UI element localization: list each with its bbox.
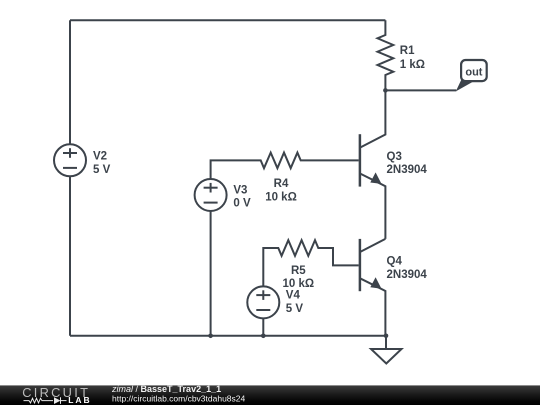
- node dot ground: [384, 334, 389, 339]
- wire V4 to bottom rail: [262, 318, 264, 335]
- svg-text:Q4: Q4: [387, 256, 403, 268]
- svg-text:2N3904: 2N3904: [387, 269, 428, 281]
- wire V3 to bottom rail: [210, 211, 212, 336]
- svg-text:Q3: Q3: [387, 151, 402, 163]
- svg-text:0 V: 0 V: [233, 197, 251, 209]
- resistor R1: [378, 20, 394, 90]
- svg-text:LAB: LAB: [68, 395, 91, 405]
- svg-text:1 kΩ: 1 kΩ: [400, 59, 425, 71]
- voltage source V2: [54, 144, 86, 176]
- svg-text:5 V: 5 V: [93, 164, 111, 176]
- ground: [385, 336, 387, 349]
- voltage source V3: [195, 179, 227, 211]
- Q4 emitter arrow: [370, 277, 381, 289]
- transistor Q3: [359, 134, 362, 186]
- svg-text:out: out: [465, 67, 482, 79]
- voltage source V4: [247, 286, 279, 318]
- svg-text:zimal / BasseT_Trav2_1_1: zimal / BasseT_Trav2_1_1: [111, 384, 221, 394]
- node dot V4 bottom: [261, 334, 266, 339]
- wire out net: [385, 89, 456, 91]
- node dot V3 bottom: [208, 334, 213, 339]
- wire left rail upper: [69, 20, 71, 144]
- Q3 emitter arrow: [370, 172, 381, 184]
- svg-text:5 V: 5 V: [286, 303, 304, 315]
- svg-text:10 kΩ: 10 kΩ: [265, 191, 297, 203]
- svg-text:R4: R4: [274, 178, 289, 190]
- svg-text:V4: V4: [286, 290, 301, 302]
- logo squiggle resistor+diode: [24, 397, 67, 404]
- out flag tail: [456, 80, 474, 92]
- svg-text:V2: V2: [93, 150, 107, 162]
- transistor Q4: [359, 239, 362, 291]
- out flag box: [461, 60, 487, 81]
- svg-text:R1: R1: [400, 45, 415, 57]
- footer bar: [0, 385, 540, 405]
- svg-text:10 kΩ: 10 kΩ: [282, 278, 314, 290]
- wire bottom rail: [70, 335, 386, 337]
- node dot out: [383, 88, 388, 93]
- wire left rail lower: [69, 176, 71, 335]
- svg-text:R5: R5: [291, 265, 306, 277]
- svg-text:http://circuitlab.com/cbv3tdah: http://circuitlab.com/cbv3tdahu8s24: [112, 394, 246, 404]
- wire top rail: [70, 19, 385, 21]
- svg-text:V3: V3: [233, 184, 247, 196]
- wire Q3 collector: [360, 90, 385, 147]
- wire base row with resistor R4: [211, 153, 359, 179]
- resistor R5 and wire to Q4 base: [263, 240, 358, 286]
- svg-text:2N3904: 2N3904: [387, 164, 428, 176]
